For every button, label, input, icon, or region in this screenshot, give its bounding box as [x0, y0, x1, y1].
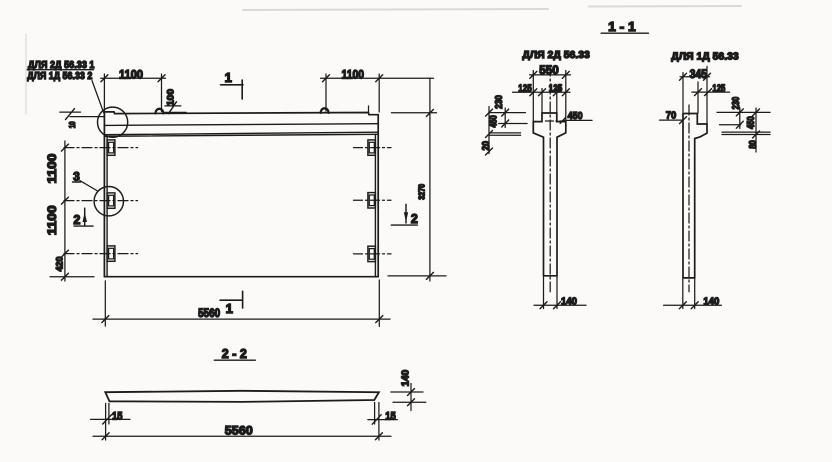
slab 2-2 outline [105, 391, 379, 402]
embed plate right top [368, 140, 376, 155]
svg-text:125: 125 [712, 83, 725, 94]
dim 140 right stem: dimension line [664, 304, 722, 306]
svg-text:2 - 2: 2 - 2 [222, 347, 247, 361]
embed plate left middle [107, 193, 115, 208]
panel right edge outer [377, 115, 379, 277]
svg-text:450: 450 [746, 116, 757, 129]
dim 140 right stem: extension lines [682, 279, 684, 309]
svg-text:15: 15 [112, 410, 123, 422]
dim 1100 top-right: extension lines [325, 74, 327, 111]
dim 15 left: extension lines [105, 404, 107, 441]
dim 345: dimension line [680, 76, 709, 78]
section mark 2 right [391, 204, 418, 226]
detail circle 3 at middle-left embed [94, 187, 123, 216]
svg-text:140: 140 [401, 369, 412, 386]
svg-text:2: 2 [411, 212, 418, 226]
section 1D outline (L-shape) [683, 114, 707, 278]
panel left edge inner [106, 136, 108, 276]
svg-text:230: 230 [494, 95, 505, 109]
lifting loop left [155, 109, 163, 114]
svg-text:5560: 5560 [198, 308, 220, 320]
dim 70: dimension line [660, 119, 684, 121]
centerline embed left top [64, 147, 138, 149]
bottom edge extension to left [50, 276, 94, 278]
svg-text:100: 100 [166, 89, 177, 106]
svg-text:125: 125 [549, 84, 563, 95]
dim 125 right section: extension line [697, 82, 699, 113]
svg-text:ДЛЯ 1Д 56.33 2: ДЛЯ 1Д 56.33 2 [27, 70, 92, 82]
dim 450 line left [488, 107, 490, 154]
centerline embed right middle [354, 199, 392, 201]
dim 3270: extension line top [391, 112, 436, 114]
panel top band bottom line upper [104, 132, 378, 135]
step tick at top right lip [368, 106, 370, 114]
panel top band bottom line lower [104, 134, 378, 136]
dim 3270: dimension line [429, 78, 431, 281]
title 1-1 [601, 20, 648, 34]
section 2D left side extension lines [489, 113, 527, 136]
dim 1100 top-left: extension lines [103, 74, 105, 111]
embed plate left bottom [107, 246, 115, 261]
title 2-2 [214, 347, 255, 361]
panel right edge inner [374, 134, 376, 276]
dim 125 right section: dimension line [692, 91, 730, 93]
dim 125 pair: dimension line [513, 91, 571, 93]
embed plate right middle [368, 193, 376, 208]
svg-text:125: 125 [518, 84, 532, 95]
dim 140 left stem: dimension line [534, 304, 586, 306]
panel bottom edge [104, 276, 378, 278]
section 1D centerline [688, 105, 690, 292]
dim 140 left stem: extension lines [543, 277, 545, 309]
section mark 2 left [73, 208, 93, 227]
svg-text:140: 140 [703, 296, 719, 308]
svg-text:ДЛЯ 2Д 56.33: ДЛЯ 2Д 56.33 [522, 49, 590, 61]
dim 1100 top-left: dimension line [101, 77, 166, 79]
section 2D flange cross dash [545, 120, 561, 122]
dim 5560 main: dimension line [93, 318, 390, 320]
svg-text:1: 1 [226, 301, 233, 316]
svg-text:1100: 1100 [119, 68, 143, 82]
dim 15 right: dimension line [368, 419, 397, 421]
svg-text:1 - 1: 1 - 1 [608, 20, 636, 34]
dim 15 right: extension lines [374, 403, 376, 425]
dim 125 pair: extension lines [541, 89, 543, 114]
dim 550: extension lines [532, 71, 534, 122]
section 1D right side extension lines [717, 112, 770, 134]
dim 10 at top-left lip [60, 109, 105, 120]
tick left dim at embed2 [61, 197, 68, 204]
svg-text:20: 20 [481, 141, 492, 151]
svg-text:1100: 1100 [45, 153, 59, 183]
dim 230 line right [739, 108, 741, 129]
svg-text:10: 10 [67, 121, 77, 128]
svg-text:420: 420 [55, 257, 66, 272]
centerline embed right top [354, 147, 392, 149]
svg-text:70: 70 [666, 110, 677, 122]
svg-text:1100: 1100 [45, 205, 59, 235]
embed plate left top [107, 140, 115, 155]
spec note line 1 [27, 59, 94, 71]
scan artifact faint vertical line left [25, 34, 27, 114]
tick left dim at embed3 [61, 250, 68, 257]
scan artifact gray streak top center [243, 6, 741, 10]
dim 15 left: dimension line [91, 418, 130, 420]
svg-text:15: 15 [385, 410, 396, 422]
centerline embed left bottom [64, 253, 138, 255]
svg-text:1: 1 [225, 70, 232, 85]
embed plate right bottom [368, 246, 376, 261]
dim 5560 main: extension lines [104, 281, 106, 326]
svg-text:80: 80 [748, 140, 759, 149]
svg-text:ДЛЯ 1Д 56.33: ДЛЯ 1Д 56.33 [671, 51, 739, 63]
panel left edge outer [103, 112, 105, 277]
lifting loop right [321, 108, 329, 113]
tick left dim at embed1 [61, 144, 68, 151]
dim 230 line left [504, 108, 506, 128]
section mark 1 bottom [220, 291, 243, 308]
dim 140 thickness: dimension line [410, 384, 412, 411]
svg-text:2: 2 [73, 213, 80, 227]
svg-text:230: 230 [731, 96, 742, 109]
dim 345: extension lines [682, 73, 684, 113]
tick left dim at bottom edge [61, 273, 68, 280]
dim 100 at left loop [165, 102, 186, 114]
svg-text:450: 450 [488, 115, 499, 128]
panel top edge with corner lips [104, 112, 378, 115]
centerline embed right bottom [354, 253, 392, 255]
label 3 [73, 170, 81, 184]
left vertical dimension line [64, 141, 66, 281]
svg-text:5560: 5560 [225, 423, 253, 437]
dim 550: dimension line [530, 74, 571, 76]
dim 450 line right [755, 108, 757, 152]
leader from spec note to corner detail [92, 81, 104, 113]
panel top band second line [104, 124, 378, 126]
dim 5560 bottom: dimension line [93, 435, 391, 437]
svg-text:550: 550 [539, 65, 559, 77]
label 450 with leader [560, 110, 592, 123]
svg-text:3270: 3270 [416, 184, 426, 200]
detail circle at top-left corner [98, 107, 128, 137]
svg-text:345: 345 [690, 69, 708, 81]
section mark 1 top [221, 80, 243, 99]
svg-text:140: 140 [561, 296, 577, 308]
dim 1100 top-right: dimension line [321, 77, 434, 79]
leader to detail 3 [80, 181, 98, 191]
section 2D centerline [549, 66, 551, 292]
svg-text:1100: 1100 [342, 68, 365, 82]
section 2D outline (T-shape) [533, 113, 566, 276]
centerline embed left middle [64, 200, 138, 202]
dim 3270: extension line bottom [388, 275, 446, 277]
dim 140 thickness: extension lines [391, 391, 423, 393]
